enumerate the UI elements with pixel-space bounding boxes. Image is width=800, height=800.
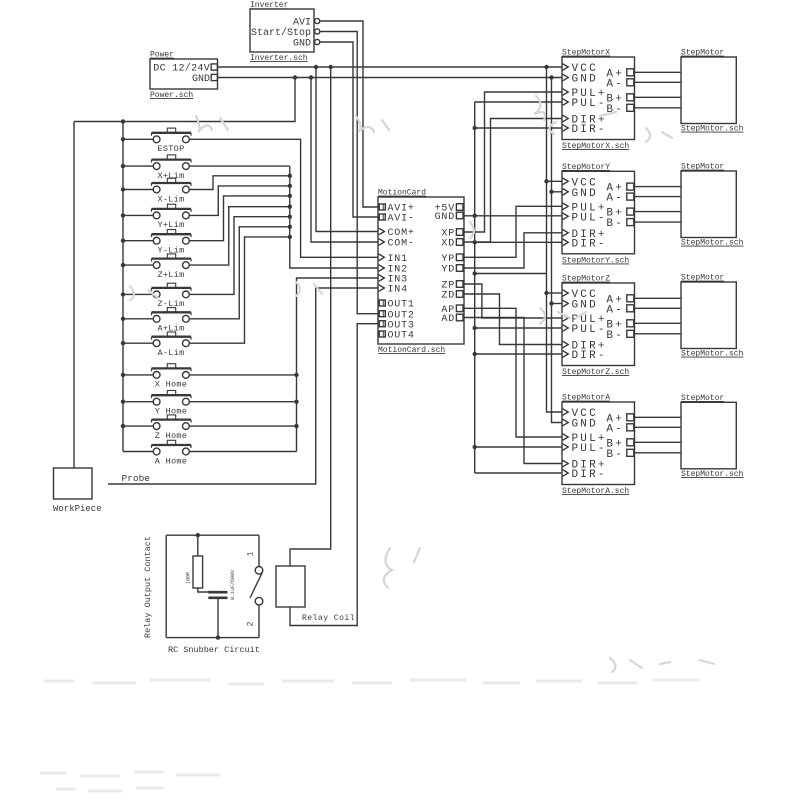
svg-text:GND: GND — [572, 188, 598, 200]
inverter pin GND — [315, 39, 320, 44]
junction GND rail to driver GND bus — [549, 75, 553, 79]
switch Z+Lim — [121, 254, 191, 280]
svg-text:Relay Coil: Relay Coil — [302, 614, 355, 623]
wire ground bus to StepMotorA DIR- — [475, 472, 562, 474]
wire StepMotorZ A+ to motor — [633, 297, 681, 299]
MotionCard pin OUT1 — [379, 300, 414, 311]
MotionCard pin OUT3 — [379, 320, 414, 331]
wire GND drop to switch common bus — [74, 78, 295, 122]
StepMotorA pin DIR+ — [563, 460, 607, 472]
wire inverter Start/Stop to MotionCard OUT2 — [320, 32, 378, 314]
StepMotorZ pin A+ — [606, 294, 633, 306]
relay contact terminal 1 wire — [258, 535, 260, 566]
wire +12/24V to relay coil terminal — [290, 67, 331, 566]
wire inverter GND to MotionCard AVI- — [320, 42, 378, 217]
svg-text:PUL-: PUL- — [572, 98, 607, 110]
svg-text:A-Lim: A-Lim — [157, 348, 184, 358]
relay contact blade — [250, 572, 263, 598]
svg-text:DIR-: DIR- — [572, 124, 607, 136]
svg-text:X-Lim: X-Lim — [157, 194, 184, 204]
junction ground bus stub — [473, 271, 477, 275]
svg-text:PUL-: PUL- — [572, 212, 607, 224]
wire GND rail — [218, 77, 563, 79]
wire ESTOP to IN1 — [189, 139, 378, 257]
junction ground bus / StepMotorA PUL- — [473, 445, 477, 449]
wire MotionCard GND to StepMotorY PUL- — [464, 215, 562, 217]
switch A+Lim — [121, 308, 191, 334]
MotionCard pin COM+ — [379, 228, 415, 239]
svg-text:PUL-: PUL- — [572, 443, 607, 455]
MotionCard pin AVI+ — [379, 204, 414, 215]
wire inverter AVI to MotionCard AVI+ — [320, 21, 378, 207]
MotionCard pin ZP — [441, 281, 463, 292]
StepMotorZ pin PUL+ — [563, 314, 607, 326]
workpiece plate WorkPiece — [54, 468, 93, 499]
junction limit merge bus / Z+Lim — [288, 205, 292, 209]
junction limit merge bus / Z-Lim — [288, 215, 292, 219]
RC snubber left wire — [165, 535, 167, 637]
svg-text:YD: YD — [441, 265, 455, 276]
wire X+Lim to limit merge bus — [189, 165, 289, 167]
svg-text:WorkPiece: WorkPiece — [53, 504, 102, 514]
wire ground bus to StepMotorZ PUL- — [475, 327, 562, 329]
switch A-Lim — [121, 332, 191, 358]
svg-text:IN1: IN1 — [388, 254, 408, 265]
stepper driver StepMotorA (StepMotorA.sch) — [562, 394, 635, 497]
svg-text:A-: A- — [606, 304, 624, 316]
junction ground bus / StepMotorY DIR- — [473, 240, 477, 244]
svg-text:AVI-: AVI- — [388, 214, 415, 225]
svg-text:100R: 100R — [186, 572, 192, 584]
wire StepMotorA B+ to motor — [633, 441, 681, 443]
StepMotorX pin DIR+ — [563, 115, 607, 127]
MotionCard pin IN2 — [379, 265, 408, 276]
junction power GND bus / StepMotorZ GND — [549, 301, 553, 305]
wire ZD to StepMotorZ DIR+ — [464, 294, 562, 345]
svg-text:A-: A- — [606, 78, 624, 90]
switch X-Lim — [121, 178, 191, 204]
MotionCard pin AVI- — [379, 214, 414, 225]
svg-text:OUT1: OUT1 — [388, 300, 415, 311]
wire Y-Lim to limit merge bus — [189, 196, 289, 241]
StepMotorY pin A- — [606, 193, 633, 205]
StepMotorZ pin GND — [563, 300, 598, 312]
RC snubber bottom rail — [166, 637, 259, 639]
relay contact terminal 2 — [255, 597, 263, 605]
wire YD to StepMotorY DIR+ — [464, 233, 562, 268]
MotionCard pin ZD — [441, 291, 463, 302]
StepMotorA pin PUL- — [563, 443, 607, 455]
svg-text:Probe: Probe — [122, 473, 151, 484]
switch Z-Lim — [121, 283, 191, 309]
svg-text:B-: B- — [606, 330, 624, 342]
wire StepMotorY B- to motor — [633, 221, 681, 223]
wire VCC bus to StepMotorY VCC — [547, 180, 563, 182]
wire ground bus to StepMotorA PUL- — [475, 446, 562, 448]
wire ground bus stub — [475, 273, 547, 275]
StepMotorA pin B+ — [606, 438, 633, 450]
svg-text:COM+: COM+ — [388, 228, 415, 239]
switch X+Lim — [121, 155, 191, 181]
StepMotorZ pin B+ — [606, 319, 633, 331]
wire logic ground bus — [474, 102, 476, 473]
junction ground bus / StepMotorZ DIR- — [473, 352, 477, 356]
wire StepMotorZ A- to motor — [633, 307, 681, 309]
wire switch common vertical bus — [122, 122, 124, 452]
wire Y Home to home merge bus — [189, 401, 296, 403]
svg-text:B-: B- — [606, 218, 624, 230]
junction limit merge bus / A-Lim — [288, 235, 292, 239]
wire ground bus to StepMotorZ DIR- — [475, 353, 562, 355]
RC snubber top rail — [166, 534, 259, 536]
resistor R1 to capacitor C1 wire — [198, 588, 218, 592]
junction switch common bus — [121, 119, 125, 123]
power pin DC 12/24V — [211, 64, 217, 70]
StepMotorX pin DIR- — [563, 124, 607, 136]
switch Y Home — [121, 391, 191, 417]
StepMotorX pin A+ — [606, 68, 633, 80]
stepper motor for StepMotorY (StepMotor.sch) — [681, 163, 744, 248]
wire StepMotorX B- to motor — [633, 107, 681, 109]
stepper motor for StepMotorX (StepMotor.sch) — [681, 49, 744, 134]
svg-text:Relay Output Contact: Relay Output Contact — [143, 536, 153, 638]
wire ground bus to StepMotorX DIR- — [475, 127, 562, 129]
wire StepMotorZ B- to motor — [633, 333, 681, 335]
stepper driver StepMotorZ (StepMotorZ.sch) — [562, 275, 635, 378]
junction ground bus / StepMotorX DIR- — [473, 126, 477, 130]
StepMotorX pin PUL- — [563, 98, 607, 110]
wire StepMotorZ B+ to motor — [633, 322, 681, 324]
svg-text:Y+Lim: Y+Lim — [157, 220, 184, 230]
StepMotorY pin PUL- — [563, 212, 607, 224]
StepMotorX pin A- — [606, 78, 633, 90]
wire StepMotorY A- to motor — [633, 196, 681, 198]
motion controller U1 MotionCard (MotionCard.sch) — [378, 189, 464, 356]
wire AP to StepMotorA PUL+ — [464, 308, 562, 437]
svg-text:GND: GND — [572, 74, 598, 86]
wire StepMotorY B+ to motor — [633, 211, 681, 213]
svg-text:OUT4: OUT4 — [388, 331, 415, 342]
wire Z+Lim to limit merge bus — [189, 207, 289, 265]
MotionCard pin +5V — [435, 204, 463, 215]
svg-text:IN4: IN4 — [388, 285, 408, 296]
svg-text:GND: GND — [435, 212, 455, 223]
wire limit merge bus to IN2 — [290, 166, 378, 268]
stepper driver StepMotorY (StepMotorY.sch) — [562, 163, 635, 265]
wire ground bus to StepMotorY DIR- — [475, 241, 562, 243]
MotionCard pin XP — [441, 229, 463, 240]
StepMotorA pin A- — [606, 423, 633, 435]
svg-text:0.1uF/600V: 0.1uF/600V — [230, 570, 236, 600]
junction limit merge bus / Y-Lim — [288, 194, 292, 198]
svg-text:X Home: X Home — [155, 380, 187, 390]
StepMotorY pin B- — [606, 218, 633, 230]
StepMotorY pin A+ — [606, 183, 633, 195]
wire XP to StepMotorX PUL+ — [464, 92, 562, 232]
StepMotorA pin VCC — [563, 408, 598, 420]
MotionCard pin OUT2 — [379, 310, 414, 321]
wire +12/24V to COM+ — [316, 67, 378, 232]
wire YP to StepMotorY PUL+ — [464, 206, 562, 257]
wire VCC bus to StepMotorZ VCC — [547, 292, 563, 294]
StepMotorA pin DIR- — [563, 469, 607, 481]
wire Probe to IN4 — [108, 288, 378, 484]
svg-text:DC 12/24V: DC 12/24V — [153, 63, 210, 75]
svg-text:A-: A- — [606, 423, 624, 435]
StepMotorZ pin PUL- — [563, 324, 607, 336]
StepMotorZ pin VCC — [563, 289, 598, 301]
wire power GND bus — [552, 78, 563, 423]
wire ZP to StepMotorZ PUL+ — [464, 284, 562, 318]
switch A Home — [123, 440, 191, 466]
StepMotorX pin GND — [563, 74, 598, 86]
junction VCC bus / StepMotorZ VCC — [544, 291, 548, 295]
svg-text:DIR-: DIR- — [572, 350, 607, 362]
StepMotorX pin B+ — [606, 93, 633, 105]
wire StepMotorX B+ to motor — [633, 96, 681, 98]
StepMotorX pin PUL+ — [563, 88, 607, 100]
capacitor C1 plate 1 — [208, 591, 227, 594]
junction limit merge bus / Y+Lim — [288, 184, 292, 188]
StepMotorA pin B- — [606, 449, 633, 461]
MotionCard pin IN3 — [379, 275, 408, 286]
StepMotorZ pin B- — [606, 330, 633, 342]
junction power GND bus / StepMotorY GND — [549, 190, 553, 194]
MotionCard pin AP — [441, 305, 463, 316]
inverter pin AVI — [315, 18, 320, 23]
MotionCard pin GND — [435, 212, 463, 223]
StepMotorY pin DIR+ — [563, 229, 607, 241]
svg-text:GND: GND — [572, 300, 598, 312]
svg-text:COM-: COM- — [388, 239, 415, 250]
switch Y+Lim — [121, 204, 191, 230]
switch X Home — [121, 364, 191, 390]
svg-text:A Home: A Home — [155, 456, 187, 466]
MotionCard pin YP — [441, 254, 463, 265]
wire A Home to home merge bus — [189, 451, 296, 453]
MotionCard pin COM- — [379, 239, 415, 250]
StepMotorZ pin DIR+ — [563, 341, 607, 353]
StepMotorY pin PUL+ — [563, 202, 607, 214]
wire StepMotorA A- to motor — [633, 426, 681, 428]
MotionCard pin AD — [441, 314, 463, 325]
wire StepMotorX A- to motor — [633, 81, 681, 83]
wire +12/24V rail — [218, 66, 563, 68]
MotionCard pin IN1 — [379, 254, 408, 265]
StepMotorY pin GND — [563, 188, 598, 200]
wire ground bus to StepMotorX PUL- — [475, 101, 562, 103]
StepMotorA pin A+ — [606, 413, 633, 425]
wire StepMotorA B- to motor — [633, 452, 681, 454]
svg-text:XD: XD — [441, 239, 455, 250]
svg-text:1: 1 — [247, 551, 256, 556]
junction +12/24V rail to relay drop — [329, 65, 333, 69]
StepMotorY pin VCC — [563, 177, 598, 189]
MotionCard pin XD — [441, 239, 463, 250]
StepMotorA pin GND — [563, 419, 598, 431]
relay contact terminal 2 wire — [258, 605, 260, 638]
svg-text:DIR-: DIR- — [572, 469, 607, 481]
svg-text:PUL-: PUL- — [572, 324, 607, 336]
junction limit merge bus / A+Lim — [288, 225, 292, 229]
junction GND rail to COM- drop — [309, 75, 313, 79]
svg-text:Z Home: Z Home — [155, 431, 187, 441]
capacitor C1 lead — [217, 599, 219, 638]
wire power GND bus to StepMotorZ GND — [552, 303, 563, 305]
stepper motor for StepMotorZ (StepMotor.sch) — [681, 274, 744, 359]
svg-text:AVI: AVI — [293, 18, 311, 29]
svg-text:GND: GND — [293, 39, 311, 50]
junction VCC bus / StepMotorY VCC — [544, 179, 548, 183]
MotionCard pin OUT4 — [379, 331, 414, 342]
svg-text:B-: B- — [606, 449, 624, 461]
junction home merge bus / Y Home — [294, 400, 298, 404]
wire StepMotorX A+ to motor — [633, 71, 681, 73]
stepper driver StepMotorX (StepMotorX.sch) — [562, 49, 635, 152]
resistor R1 lead — [197, 535, 199, 556]
junction +12/24V rail to COM+ drop — [314, 65, 318, 69]
wire Z-Lim to limit merge bus — [189, 217, 289, 295]
junction GND / logic ground bus — [473, 214, 477, 218]
wire to WorkPiece probe plate — [73, 122, 75, 469]
wire GND to COM- — [311, 78, 378, 243]
stepper motor for StepMotorA (StepMotor.sch) — [681, 394, 744, 479]
junction capacitor C1 / bottom rail — [216, 635, 220, 639]
junction snubber resistor / top rail — [196, 533, 200, 537]
StepMotorX pin B- — [606, 104, 633, 116]
capacitor C1 plate 2 — [208, 596, 227, 599]
relay contact terminal 1 — [255, 567, 263, 575]
wire power GND bus to StepMotorY GND — [552, 191, 563, 193]
svg-text:RC Snubber Circuit: RC Snubber Circuit — [168, 645, 260, 655]
wire A+Lim to limit merge bus — [189, 227, 289, 319]
inverter pin Start/Stop — [315, 29, 320, 34]
junction +12/24V rail to VCC bus — [544, 65, 548, 69]
svg-text:ESTOP: ESTOP — [157, 144, 184, 154]
junction limit merge bus / X-Lim — [288, 174, 292, 178]
svg-text:A-: A- — [606, 193, 624, 205]
power supply PS1 (Power.sch) — [150, 51, 218, 101]
wire StepMotorY A+ to motor — [633, 186, 681, 188]
svg-text:GND: GND — [192, 74, 210, 85]
relay coil K1 — [276, 566, 305, 607]
wire X-Lim to limit merge bus — [189, 176, 289, 190]
svg-text:DIR-: DIR- — [572, 238, 607, 250]
wire XD to StepMotorX DIR+ — [464, 119, 562, 243]
MotionCard pin YD — [441, 265, 463, 276]
wire +12/24V VCC bus — [547, 67, 563, 412]
junction home merge bus / X Home — [294, 373, 298, 377]
wire home merge bus to IN3 — [297, 278, 379, 452]
StepMotorY pin B+ — [606, 208, 633, 220]
wire StepMotorA A+ to motor — [633, 416, 681, 418]
junction ground bus / StepMotorZ PUL- — [473, 326, 477, 330]
junction home merge bus / Z Home — [294, 424, 298, 428]
inverter module U2 (Inverter.sch) — [250, 1, 314, 63]
svg-text:ZD: ZD — [441, 291, 455, 302]
svg-text:X+Lim: X+Lim — [157, 171, 184, 181]
svg-text:GND: GND — [572, 419, 598, 431]
StepMotorZ pin A- — [606, 304, 633, 316]
StepMotorZ pin DIR- — [563, 350, 607, 362]
svg-text:Start/Stop: Start/Stop — [251, 27, 311, 39]
wire Y+Lim to limit merge bus — [189, 186, 289, 216]
switch Z Home — [121, 415, 191, 441]
switch Y-Lim — [121, 230, 191, 256]
wire OUT3 to relay coil return — [290, 324, 378, 626]
svg-text:2: 2 — [247, 621, 256, 626]
svg-text:YP: YP — [441, 254, 455, 265]
svg-text:AD: AD — [441, 314, 455, 325]
power pin GND — [211, 74, 217, 80]
svg-text:Z+Lim: Z+Lim — [157, 270, 184, 280]
StepMotorX pin VCC — [563, 63, 598, 75]
wire X Home to home merge bus — [189, 374, 296, 376]
MotionCard pin IN4 — [379, 285, 408, 296]
resistor R1 — [193, 556, 203, 588]
wire A-Lim to limit merge bus — [189, 237, 289, 343]
StepMotorY pin DIR- — [563, 238, 607, 250]
StepMotorA pin PUL+ — [563, 433, 607, 445]
wire AD to StepMotorA DIR+ — [464, 318, 562, 464]
wire Z Home to home merge bus — [189, 425, 296, 427]
junction GND rail to switch common drop — [293, 75, 297, 79]
switch ESTOP — [121, 128, 191, 154]
